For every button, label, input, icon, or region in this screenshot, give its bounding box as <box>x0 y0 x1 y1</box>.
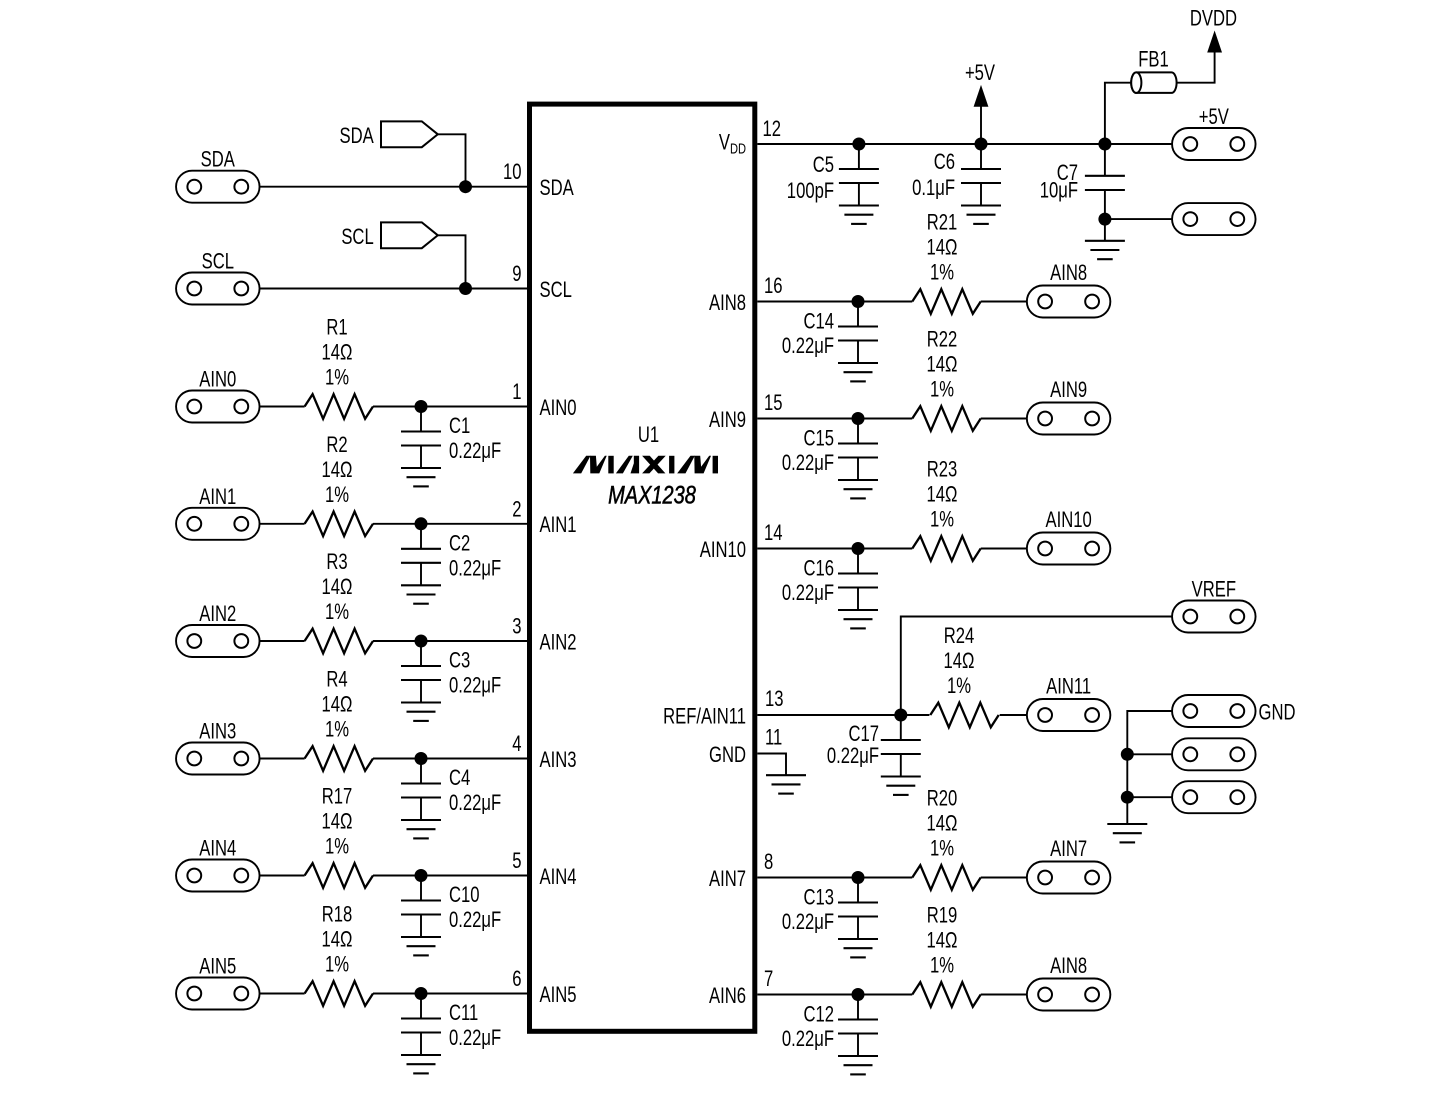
node <box>852 871 865 884</box>
wire <box>757 714 929 716</box>
connector pad AIN11 <box>1027 674 1111 731</box>
wire <box>757 143 1172 145</box>
capacitor C14 <box>782 302 878 364</box>
ground <box>766 775 806 793</box>
svg-text:R3: R3 <box>326 550 347 575</box>
ground <box>1085 241 1125 259</box>
wire <box>260 523 305 525</box>
ground <box>401 1055 441 1073</box>
ground <box>401 820 441 838</box>
node <box>975 138 988 151</box>
node <box>852 988 865 1001</box>
svg-text:C3: C3 <box>449 648 470 673</box>
connector pad GND <box>1172 695 1295 727</box>
svg-text:C10: C10 <box>449 883 480 908</box>
svg-text:C12: C12 <box>803 1002 834 1027</box>
svg-text:1%: 1% <box>325 600 349 625</box>
capacitor C7 <box>1040 144 1125 241</box>
svg-text:AIN7: AIN7 <box>1050 837 1087 862</box>
connector pad AIN8 <box>1027 954 1111 1011</box>
svg-text:14Ω: 14Ω <box>322 575 353 600</box>
node <box>459 282 472 295</box>
svg-text:AIN10: AIN10 <box>1045 508 1091 533</box>
ground <box>839 206 879 224</box>
resistor R22 <box>912 327 980 431</box>
svg-text:AIN1: AIN1 <box>540 513 577 538</box>
svg-text:0.22μF: 0.22μF <box>782 451 834 476</box>
svg-text:AIN3: AIN3 <box>199 719 236 744</box>
svg-text:R1: R1 <box>326 315 347 340</box>
power DVDD <box>1190 6 1237 52</box>
svg-text:0.22μF: 0.22μF <box>449 556 501 581</box>
capacitor C13 <box>782 878 878 940</box>
ferrite bead FB1 <box>1131 47 1176 93</box>
wire <box>1127 711 1172 824</box>
svg-text:0.22μF: 0.22μF <box>782 334 834 359</box>
connector pad AIN3 <box>176 719 259 774</box>
svg-text:8: 8 <box>764 850 773 875</box>
svg-text:AIN4: AIN4 <box>199 836 236 861</box>
svg-text:VREF: VREF <box>1192 577 1236 602</box>
svg-text:+5V: +5V <box>1199 105 1230 130</box>
node <box>1121 791 1134 804</box>
svg-text:C1: C1 <box>449 414 470 439</box>
resistor R20 <box>912 786 980 890</box>
connector pad AIN1 <box>176 484 259 539</box>
svg-text:C15: C15 <box>803 426 834 451</box>
svg-text:AIN2: AIN2 <box>540 630 577 655</box>
node <box>415 635 428 648</box>
svg-text:14Ω: 14Ω <box>322 927 353 952</box>
svg-text:14Ω: 14Ω <box>322 340 353 365</box>
svg-text:15: 15 <box>764 391 783 416</box>
capacitor C11 <box>401 994 501 1056</box>
svg-text:14Ω: 14Ω <box>927 811 958 836</box>
wire <box>757 301 912 303</box>
wire <box>1177 51 1215 83</box>
svg-text:1%: 1% <box>325 365 349 390</box>
connector pad VREF <box>1172 577 1256 632</box>
svg-text:R2: R2 <box>326 432 347 457</box>
resistor R4 <box>305 667 373 771</box>
svg-text:1%: 1% <box>930 836 954 861</box>
svg-text:MAX1238: MAX1238 <box>608 481 696 509</box>
svg-text:R18: R18 <box>322 902 353 927</box>
resistor R19 <box>912 903 980 1007</box>
svg-text:1%: 1% <box>325 717 349 742</box>
svg-text:AIN0: AIN0 <box>540 395 577 420</box>
svg-text:0.22μF: 0.22μF <box>782 581 834 606</box>
node <box>415 752 428 765</box>
svg-text:1%: 1% <box>930 507 954 532</box>
svg-text:14: 14 <box>764 521 783 546</box>
svg-text:2: 2 <box>512 497 521 522</box>
svg-text:AIN8: AIN8 <box>1050 261 1087 286</box>
svg-text:4: 4 <box>512 732 521 757</box>
capacitor C6 <box>912 144 1001 206</box>
node <box>459 180 472 193</box>
svg-text:R17: R17 <box>322 784 353 809</box>
connector pad AIN0 <box>176 367 259 422</box>
connector pad <box>1172 738 1256 770</box>
svg-text:AIN8: AIN8 <box>709 290 746 315</box>
connector pad AIN8 <box>1027 261 1111 318</box>
svg-text:R20: R20 <box>927 786 958 811</box>
wire <box>981 877 1027 879</box>
wire <box>1127 796 1172 798</box>
connector pad AIN9 <box>1027 378 1111 435</box>
Maxim logo <box>573 456 718 474</box>
node <box>1098 138 1111 151</box>
resistor R24 <box>930 624 998 728</box>
node <box>415 400 428 413</box>
wire <box>373 406 527 408</box>
svg-text:+5V: +5V <box>965 61 996 86</box>
node <box>852 295 865 308</box>
svg-text:14Ω: 14Ω <box>927 235 958 260</box>
svg-text:SDA: SDA <box>540 176 575 201</box>
svg-text:14Ω: 14Ω <box>927 928 958 953</box>
resistor R21 <box>912 210 980 314</box>
node <box>852 412 865 425</box>
wire <box>260 993 305 995</box>
svg-text:R24: R24 <box>944 624 975 649</box>
svg-text:REF/AIN11: REF/AIN11 <box>663 704 746 729</box>
node <box>894 709 907 722</box>
resistor R18 <box>305 902 373 1006</box>
svg-text:0.22μF: 0.22μF <box>449 439 501 464</box>
connector pad <box>1172 781 1256 813</box>
connector pad AIN10 <box>1027 508 1111 565</box>
wire <box>981 418 1027 420</box>
svg-text:DVDD: DVDD <box>1190 6 1237 31</box>
capacitor C10 <box>401 876 501 938</box>
svg-text:C2: C2 <box>449 531 470 556</box>
node <box>1098 213 1111 226</box>
capacitor C15 <box>782 419 878 481</box>
wire <box>1000 714 1027 716</box>
ground <box>838 1056 878 1074</box>
svg-text:1%: 1% <box>930 377 954 402</box>
svg-text:1%: 1% <box>947 674 971 699</box>
svg-text:AIN0: AIN0 <box>199 367 236 392</box>
resistor R1 <box>305 315 373 419</box>
wire <box>260 875 305 877</box>
svg-text:AIN9: AIN9 <box>1050 378 1087 403</box>
svg-text:C16: C16 <box>803 556 834 581</box>
svg-text:AIN7: AIN7 <box>709 866 746 891</box>
wire <box>981 994 1027 996</box>
node <box>1121 748 1134 761</box>
connector pad AIN5 <box>176 954 259 1009</box>
svg-text:1%: 1% <box>325 834 349 859</box>
capacitor C16 <box>782 549 878 611</box>
node <box>415 987 428 1000</box>
svg-text:14Ω: 14Ω <box>927 352 958 377</box>
capacitor C4 <box>401 759 501 821</box>
svg-text:AIN10: AIN10 <box>700 537 746 562</box>
wire <box>373 523 527 525</box>
ground <box>401 468 441 486</box>
svg-text:R4: R4 <box>326 667 347 692</box>
wire <box>260 640 305 642</box>
svg-text:1: 1 <box>512 380 521 405</box>
wire <box>373 875 527 877</box>
ground <box>881 777 921 795</box>
svg-text:10: 10 <box>503 160 522 185</box>
ground <box>838 939 878 957</box>
connector pad SCL <box>176 249 259 304</box>
svg-text:AIN5: AIN5 <box>199 954 236 979</box>
connector pad <box>1172 203 1256 235</box>
wire <box>373 993 527 995</box>
svg-text:C13: C13 <box>803 885 834 910</box>
svg-text:GND: GND <box>1259 700 1296 725</box>
svg-text:12: 12 <box>763 117 782 142</box>
svg-text:R23: R23 <box>927 457 958 482</box>
wire <box>981 301 1027 303</box>
svg-text:C6: C6 <box>934 150 955 175</box>
svg-text:SCL: SCL <box>202 249 234 274</box>
wire <box>373 758 527 760</box>
ground <box>838 480 878 498</box>
resistor R17 <box>305 784 373 888</box>
svg-text:14Ω: 14Ω <box>322 457 353 482</box>
svg-text:0.22μF: 0.22μF <box>827 744 879 769</box>
node <box>415 517 428 530</box>
connector pad SDA <box>176 147 259 202</box>
svg-text:14Ω: 14Ω <box>944 649 975 674</box>
wire <box>260 288 527 290</box>
svg-text:R19: R19 <box>927 903 958 928</box>
svg-text:AIN5: AIN5 <box>540 982 577 1007</box>
svg-text:10μF: 10μF <box>1040 178 1078 203</box>
connector pad AIN2 <box>176 602 259 657</box>
resistor R23 <box>912 457 980 561</box>
svg-text:R22: R22 <box>927 327 958 352</box>
connector pad AIN7 <box>1027 837 1111 894</box>
wire <box>373 640 527 642</box>
svg-text:7: 7 <box>764 967 773 992</box>
wire <box>1127 753 1172 755</box>
wire <box>981 548 1027 550</box>
svg-text:AIN11: AIN11 <box>1046 674 1091 699</box>
wire <box>757 754 786 776</box>
svg-text:3: 3 <box>512 614 521 639</box>
net flag SDA <box>339 121 437 148</box>
svg-text:C14: C14 <box>803 309 834 334</box>
svg-text:5: 5 <box>512 849 521 874</box>
wire <box>260 758 305 760</box>
wire <box>1105 83 1131 144</box>
svg-text:AIN9: AIN9 <box>709 407 746 432</box>
ground <box>838 363 878 381</box>
ground <box>401 937 441 955</box>
svg-text:FB1: FB1 <box>1138 47 1169 72</box>
svg-text:AIN1: AIN1 <box>199 484 236 509</box>
wire <box>260 186 527 188</box>
svg-text:SCL: SCL <box>341 224 373 249</box>
resistor R3 <box>305 550 373 654</box>
svg-text:1%: 1% <box>325 952 349 977</box>
ground <box>961 206 1001 224</box>
svg-text:1%: 1% <box>930 953 954 978</box>
capacitor C17 <box>827 715 921 777</box>
ground <box>401 703 441 721</box>
svg-text:0.1μF: 0.1μF <box>912 176 955 201</box>
svg-text:16: 16 <box>764 274 783 299</box>
wire <box>260 406 305 408</box>
wire <box>901 617 1172 716</box>
connector pad AIN4 <box>176 836 259 891</box>
svg-text:0.22μF: 0.22μF <box>782 1027 834 1052</box>
svg-text:0.22μF: 0.22μF <box>449 1026 501 1051</box>
wire <box>757 994 912 996</box>
capacitor C5 <box>787 144 879 206</box>
wire <box>438 235 466 288</box>
svg-text:13: 13 <box>765 687 784 712</box>
power +5V <box>965 61 996 144</box>
svg-text:14Ω: 14Ω <box>927 482 958 507</box>
net flag SCL <box>341 222 437 249</box>
svg-text:U1: U1 <box>638 423 659 448</box>
svg-text:C4: C4 <box>449 766 470 791</box>
capacitor C3 <box>401 641 501 703</box>
svg-text:SDA: SDA <box>339 123 374 148</box>
svg-text:1%: 1% <box>930 260 954 285</box>
svg-text:SDA: SDA <box>201 147 236 172</box>
svg-text:0.22μF: 0.22μF <box>782 910 834 935</box>
capacitor C12 <box>782 995 878 1057</box>
svg-text:C11: C11 <box>449 1001 478 1026</box>
wire <box>438 134 466 186</box>
ground <box>401 585 441 603</box>
ground <box>838 610 878 628</box>
svg-text:14Ω: 14Ω <box>322 809 353 834</box>
svg-text:0.22μF: 0.22μF <box>449 673 501 698</box>
svg-text:0.22μF: 0.22μF <box>449 791 501 816</box>
node <box>415 869 428 882</box>
svg-text:R21: R21 <box>927 210 958 235</box>
node <box>852 542 865 555</box>
resistor R2 <box>305 432 373 536</box>
svg-text:9: 9 <box>512 262 521 287</box>
svg-text:GND: GND <box>709 742 746 767</box>
svg-text:AIN8: AIN8 <box>1050 954 1087 979</box>
node <box>852 138 865 151</box>
capacitor C1 <box>401 407 501 469</box>
svg-text:C5: C5 <box>813 153 834 178</box>
svg-text:AIN3: AIN3 <box>540 747 577 772</box>
svg-text:6: 6 <box>512 967 521 992</box>
wire <box>757 877 912 879</box>
svg-text:AIN6: AIN6 <box>709 983 746 1008</box>
ground <box>1107 824 1147 842</box>
wire <box>1105 218 1172 220</box>
capacitor C2 <box>401 524 501 586</box>
svg-text:0.22μF: 0.22μF <box>449 908 501 933</box>
svg-text:AIN4: AIN4 <box>540 864 577 889</box>
svg-text:SCL: SCL <box>540 277 572 302</box>
wire <box>757 418 912 420</box>
svg-text:1%: 1% <box>325 482 349 507</box>
svg-text:11: 11 <box>765 725 782 750</box>
wire <box>757 548 912 550</box>
svg-text:14Ω: 14Ω <box>322 692 353 717</box>
svg-text:100pF: 100pF <box>787 179 834 204</box>
IC U1 MAX1238 <box>530 104 755 1031</box>
connector pad +5V <box>1172 105 1256 160</box>
svg-text:AIN2: AIN2 <box>199 602 236 627</box>
